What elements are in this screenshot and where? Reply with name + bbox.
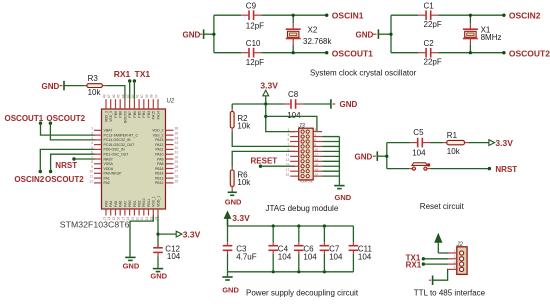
svg-text:PB10: PB10 [142, 198, 146, 207]
svg-text:32: 32 [175, 146, 179, 150]
wire TX1 to J2 pin2 [423, 258, 448, 260]
svg-text:3.3V: 3.3V [495, 138, 513, 148]
ground terminal GND (right of C8) [331, 99, 358, 109]
node reset tap [385, 155, 388, 158]
svg-text:20: 20 [314, 173, 318, 177]
svg-text:34: 34 [175, 136, 179, 140]
power terminal 3.3V (reset) [489, 138, 513, 148]
svg-text:PA15: PA15 [152, 111, 156, 119]
wire C5 to R1 [430, 142, 443, 144]
svg-text:39: 39 [145, 94, 149, 98]
svg-text:3: 3 [287, 133, 289, 137]
svg-text:GND: GND [355, 152, 373, 161]
capacitor C7 [320, 226, 343, 272]
svg-text:19: 19 [131, 217, 135, 221]
svg-text:NRST: NRST [495, 165, 517, 174]
node rail junctions [272, 224, 326, 273]
svg-text:1: 1 [91, 127, 93, 131]
svg-text:R1: R1 [447, 131, 458, 140]
svg-text:15: 15 [286, 163, 290, 167]
svg-text:VSSA: VSSA [104, 162, 114, 166]
svg-text:U2: U2 [167, 99, 175, 105]
svg-text:PB11: PB11 [147, 199, 151, 207]
svg-text:12pF: 12pF [246, 21, 264, 30]
wire bottom rail to C2 [391, 52, 418, 54]
svg-text:PB3: PB3 [147, 111, 151, 118]
svg-text:22pF: 22pF [424, 20, 442, 29]
ground terminal (TTL) [429, 276, 433, 286]
microcontroller U2 STM32F103C8T6 [89, 94, 178, 220]
svg-text:PB7: PB7 [128, 111, 132, 118]
svg-text:GND: GND [150, 271, 167, 280]
wire C2 to OSCOUT2 [439, 52, 504, 54]
svg-text:104: 104 [412, 148, 426, 157]
svg-text:36: 36 [175, 127, 179, 131]
crystal X1 [463, 15, 502, 53]
svg-text:38: 38 [150, 94, 154, 98]
svg-text:4: 4 [91, 141, 93, 145]
node junction at GND tap [212, 33, 215, 36]
svg-text:3.3V: 3.3V [260, 81, 278, 91]
svg-text:30: 30 [175, 155, 179, 159]
wire C1 to OSCIN2 [439, 14, 504, 16]
wire GND to branches [377, 143, 387, 169]
svg-text:13: 13 [102, 217, 106, 221]
svg-text:33: 33 [175, 141, 179, 145]
ground (decoupling) [222, 272, 239, 295]
node OSCIN2 [502, 10, 541, 20]
wire OSCIN2 to pin 5 [40, 149, 95, 171]
svg-text:PB9: PB9 [114, 111, 118, 118]
svg-text:2: 2 [314, 128, 316, 132]
svg-text:20: 20 [136, 217, 140, 221]
svg-text:PA6: PA6 [119, 201, 123, 207]
svg-text:3.3V: 3.3V [183, 229, 201, 239]
svg-text:C1: C1 [424, 2, 435, 11]
ground terminal GND (left of R3) [42, 81, 65, 91]
svg-text:PA9: PA9 [157, 157, 163, 161]
node OSCOUT2 [502, 48, 550, 58]
svg-text:Power supply decoupling circui: Power supply decoupling circuit [246, 288, 359, 297]
svg-text:104: 104 [167, 252, 181, 261]
svg-text:PD1-OSC_OUT: PD1-OSC_OUT [104, 153, 130, 157]
svg-text:PA8: PA8 [157, 162, 163, 166]
svg-text:PA10: PA10 [155, 153, 163, 157]
svg-text:104: 104 [358, 252, 372, 261]
svg-text:PA1: PA1 [104, 176, 110, 180]
svg-text:18: 18 [126, 217, 130, 221]
svg-text:10k: 10k [237, 122, 251, 131]
svg-text:5: 5 [91, 146, 93, 150]
capacitor C10 [241, 39, 264, 67]
capacitor C6 [294, 226, 317, 272]
svg-text:25: 25 [175, 179, 179, 183]
power terminal 3.3V (right of VDD_1) [176, 229, 200, 239]
svg-text:48: 48 [102, 94, 106, 98]
capacitor C8 [284, 90, 304, 120]
wire TX1 to PB6 pin [133, 81, 135, 99]
wire bottom rail [214, 52, 241, 54]
resistor R1 [443, 131, 468, 156]
wire VSS_1 to ground [130, 216, 153, 257]
svg-text:10k: 10k [447, 147, 461, 156]
svg-text:RX1: RX1 [406, 261, 422, 270]
node OSCIN1 [325, 10, 364, 20]
svg-text:1: 1 [454, 249, 456, 253]
svg-text:10: 10 [314, 148, 318, 152]
svg-text:14: 14 [314, 158, 318, 162]
svg-text:17: 17 [286, 168, 290, 172]
node junction at GND tap [389, 33, 392, 36]
svg-text:PA12: PA12 [155, 143, 163, 147]
svg-text:VSS_2: VSS_2 [153, 133, 164, 137]
svg-text:PB14: PB14 [155, 172, 164, 176]
svg-text:23: 23 [150, 217, 154, 221]
wire top rail [228, 225, 354, 227]
svg-text:PC13-TAMPER-RT_C: PC13-TAMPER-RT_C [104, 133, 139, 137]
svg-text:6: 6 [314, 138, 316, 142]
wire R2 to J3 pin7 [232, 132, 295, 146]
svg-text:PB1: PB1 [133, 200, 137, 207]
svg-text:PA5: PA5 [114, 201, 118, 207]
wire GND to rails vertical [378, 15, 391, 53]
wire RESET to J3 pin15 [261, 165, 296, 167]
svg-text:PB0: PB0 [128, 200, 132, 207]
ground (below C12) [150, 269, 167, 281]
svg-text:OSCIN2: OSCIN2 [509, 10, 541, 20]
ground (below chip left) [123, 257, 140, 270]
svg-text:8: 8 [314, 143, 316, 147]
svg-text:8MHz: 8MHz [481, 33, 502, 42]
svg-text:OSCOUT1: OSCOUT1 [332, 48, 373, 58]
resistor R2 [230, 104, 251, 132]
wire RX1 to PB7 pin [129, 81, 131, 99]
svg-text:GND: GND [222, 286, 239, 295]
svg-text:104: 104 [287, 111, 301, 120]
wire J2 pin4 to ground [433, 269, 448, 280]
push button (reset) [409, 163, 430, 170]
svg-text:OSCOUT2: OSCOUT2 [45, 175, 84, 184]
svg-text:R3: R3 [88, 74, 99, 83]
svg-text:8: 8 [91, 160, 93, 164]
svg-text:NRST: NRST [104, 157, 114, 161]
wire C8 to GND [304, 103, 331, 105]
svg-text:GND: GND [340, 100, 358, 109]
capacitor C11 [349, 226, 373, 272]
wire top rail to C1 [391, 14, 418, 16]
svg-text:TTL to 485 interface: TTL to 485 interface [414, 288, 486, 297]
svg-text:PB8: PB8 [119, 111, 123, 118]
svg-text:1: 1 [287, 128, 289, 132]
wire 3.3V to J3 pin1 [266, 104, 295, 132]
svg-text:VDD_1: VDD_1 [156, 196, 160, 207]
svg-text:15: 15 [112, 217, 116, 221]
svg-text:OSCIN1: OSCIN1 [332, 10, 364, 20]
svg-text:RESET: RESET [251, 156, 278, 165]
svg-text:7: 7 [287, 143, 289, 147]
svg-text:PB13: PB13 [155, 176, 164, 180]
svg-text:C5: C5 [413, 128, 424, 137]
capacitor C3 [223, 226, 257, 272]
wire C12 to ground [157, 256, 159, 268]
ground (J3 bus) [334, 186, 352, 203]
wire 3.3V to J3 pin2 [266, 116, 317, 131]
svg-text:12: 12 [89, 179, 93, 183]
wire R3 to BOOT0 pin [106, 86, 125, 100]
node OSCOUT2 (left label bottom) [45, 170, 84, 184]
svg-text:VBAT: VBAT [104, 129, 114, 133]
svg-text:42: 42 [131, 94, 135, 98]
svg-text:21: 21 [140, 217, 144, 221]
wire top rail to OSCIN1 [214, 14, 241, 16]
svg-text:46: 46 [112, 94, 116, 98]
svg-text:2: 2 [454, 255, 456, 259]
wire VDD_1 down [157, 216, 159, 248]
svg-text:PA14: PA14 [156, 111, 160, 119]
svg-text:4.7uF: 4.7uF [236, 252, 257, 261]
svg-text:37: 37 [154, 94, 158, 98]
svg-text:2: 2 [91, 132, 93, 136]
power terminal 3.3V (decoupling) [224, 212, 250, 226]
svg-text:12pF: 12pF [246, 58, 264, 67]
node VDD_1 branch [156, 233, 159, 236]
resistor R6 [230, 167, 251, 191]
svg-text:9: 9 [287, 148, 289, 152]
ground terminal GND (reset circuit) [355, 151, 378, 161]
capacitor C5 [410, 128, 430, 158]
node 3.3V junction [264, 102, 267, 105]
svg-text:104: 104 [329, 252, 343, 261]
svg-text:13: 13 [286, 158, 290, 162]
wires J3 even pins to ground bus [322, 137, 339, 185]
connector J3 2x10 header [286, 123, 323, 183]
svg-text:41: 41 [136, 94, 140, 98]
svg-text:PB5: PB5 [138, 111, 142, 118]
svg-text:10: 10 [89, 170, 93, 174]
svg-text:OSCOUT1: OSCOUT1 [5, 114, 44, 123]
svg-text:14: 14 [107, 217, 111, 221]
svg-text:3: 3 [91, 136, 93, 140]
svg-text:PB15: PB15 [155, 167, 164, 171]
node OSCOUT2 (left label top) [46, 114, 85, 125]
capacitor C4 [268, 226, 291, 272]
crystal X2 [286, 15, 333, 53]
wire power to J2 pin1 [438, 252, 448, 254]
node X2 top [292, 14, 295, 17]
wire bottom rail [228, 271, 354, 273]
node RX1 [114, 69, 132, 83]
svg-text:JTAG debug module: JTAG debug module [266, 204, 339, 213]
svg-text:PC15-OSC32_OUT: PC15-OSC32_OUT [104, 143, 136, 147]
svg-text:104: 104 [278, 252, 292, 261]
node NRST (left label) [55, 157, 77, 170]
wire R1 to 3.3V [468, 142, 489, 144]
svg-text:26: 26 [175, 175, 179, 179]
node TX1 [406, 254, 425, 263]
node TX1 [133, 69, 151, 83]
svg-text:22pF: 22pF [424, 58, 442, 67]
svg-text:19: 19 [286, 173, 290, 177]
wire GND to R3 [64, 85, 84, 87]
svg-text:4: 4 [454, 266, 456, 270]
svg-text:35: 35 [175, 132, 179, 136]
svg-text:17: 17 [121, 217, 125, 221]
wire to 3.3V arrow [158, 233, 176, 235]
node NRST [488, 165, 518, 174]
svg-text:PD0-OSC_IN: PD0-OSC_IN [104, 148, 125, 152]
svg-text:45: 45 [117, 94, 121, 98]
svg-text:44: 44 [121, 94, 125, 98]
capacitor C1 [418, 2, 442, 30]
svg-text:OSCOUT2: OSCOUT2 [46, 114, 85, 123]
svg-text:9: 9 [91, 165, 93, 169]
svg-text:4: 4 [314, 133, 316, 137]
svg-text:VSS_3: VSS_3 [109, 111, 113, 122]
svg-text:TCK/RTCK: TCK/RTCK [300, 180, 313, 184]
svg-text:C10: C10 [246, 39, 261, 48]
svg-text:BOOT0: BOOT0 [123, 111, 127, 123]
svg-text:6: 6 [91, 151, 93, 155]
svg-text:29: 29 [175, 160, 179, 164]
wire GND to rails vertical [204, 15, 214, 53]
node X2 bottom [292, 51, 295, 54]
svg-text:10k: 10k [237, 178, 251, 187]
svg-text:PA11: PA11 [155, 148, 163, 152]
svg-text:GND: GND [335, 193, 352, 202]
svg-text:10k: 10k [88, 88, 102, 97]
svg-text:5: 5 [287, 138, 289, 142]
wire button to NRST [430, 168, 489, 170]
svg-text:GND: GND [183, 31, 201, 40]
wire C9 to OSCIN1 [261, 14, 326, 16]
wire top rail R2 to C8 [232, 103, 284, 105]
node RESET [251, 156, 278, 168]
capacitor C12 [153, 244, 181, 261]
svg-text:43: 43 [126, 94, 130, 98]
capacitor C9 [241, 2, 264, 31]
svg-text:VSS_1: VSS_1 [152, 196, 156, 207]
svg-text:PA4: PA4 [109, 201, 113, 207]
svg-text:27: 27 [175, 170, 179, 174]
svg-text:System clock crystal oscillato: System clock crystal oscillator [310, 69, 417, 78]
wire OSCOUT2 to pin 6 [51, 154, 95, 171]
svg-text:104: 104 [303, 252, 317, 261]
capacitor C2 [418, 39, 442, 66]
svg-text:GND: GND [225, 198, 242, 207]
node RX1 [406, 261, 425, 270]
svg-text:PB12: PB12 [155, 181, 164, 185]
svg-text:PB6: PB6 [133, 111, 137, 118]
node branch pin2 [264, 115, 267, 118]
svg-text:PA2: PA2 [104, 181, 110, 185]
wire NRST to pin 7 [74, 158, 95, 160]
svg-text:PA13: PA13 [155, 138, 163, 142]
svg-text:11: 11 [286, 153, 290, 157]
svg-text:32.768k: 32.768k [303, 37, 332, 46]
svg-text:PB4: PB4 [142, 111, 146, 118]
svg-text:47: 47 [107, 94, 111, 98]
wire J3 pin9 to R6 [232, 151, 295, 166]
node OSCOUT1 (left label) [5, 114, 44, 125]
svg-text:OSCIN2: OSCIN2 [14, 175, 44, 184]
svg-text:VDDA: VDDA [104, 167, 114, 171]
power terminal 3.3V (JTAG top) [260, 81, 278, 104]
node X1 top [469, 14, 472, 17]
svg-text:VDD_3: VDD_3 [104, 111, 108, 122]
svg-text:22: 22 [145, 217, 149, 221]
wire OSCOUT1 to pin 2 [41, 123, 96, 135]
svg-text:OSCOUT2: OSCOUT2 [509, 48, 550, 58]
wire OSCOUT2 to pin 3 [50, 123, 95, 140]
svg-text:12: 12 [314, 153, 318, 157]
svg-text:Reset circuit: Reset circuit [420, 202, 465, 211]
svg-text:PB2: PB2 [138, 200, 142, 207]
svg-text:PC14-OSC32_IN: PC14-OSC32_IN [104, 138, 131, 142]
svg-text:16: 16 [314, 163, 318, 167]
svg-text:C9: C9 [246, 2, 257, 11]
resistor R3 [84, 74, 107, 97]
ground (below R6) [225, 191, 242, 207]
node OSCIN2 (left label bottom) [14, 170, 44, 184]
wire to button [387, 168, 409, 170]
svg-text:GND: GND [42, 82, 60, 91]
svg-text:PA0-WKUP: PA0-WKUP [104, 172, 123, 176]
wire to C5 [387, 142, 410, 144]
connector J2 4-pin header [448, 242, 467, 275]
wire C10 to OSCOUT1 [261, 52, 326, 54]
svg-text:TX1: TX1 [135, 69, 151, 79]
svg-text:C8: C8 [288, 90, 299, 99]
power terminal arrow (TTL) [435, 234, 442, 253]
svg-text:3.3V: 3.3V [232, 213, 250, 223]
svg-text:RX1: RX1 [114, 69, 131, 79]
svg-text:7: 7 [91, 155, 93, 159]
svg-text:GND: GND [356, 31, 374, 40]
svg-text:C2: C2 [424, 39, 435, 48]
svg-text:28: 28 [175, 165, 179, 169]
svg-text:X2: X2 [308, 25, 318, 34]
node X1 bottom [469, 51, 472, 54]
svg-text:VDD_2: VDD_2 [152, 129, 163, 133]
ground terminal GND (left of C1/C2) [356, 29, 379, 39]
svg-text:NRST: NRST [55, 161, 77, 170]
svg-text:31: 31 [175, 151, 179, 155]
svg-text:PA3: PA3 [104, 201, 108, 207]
wire RX1 to J2 pin3 [423, 263, 448, 265]
ground terminal GND (left of C9/C10) [183, 29, 204, 39]
svg-text:3: 3 [454, 260, 456, 264]
svg-text:40: 40 [140, 94, 144, 98]
node OSCOUT1 [325, 48, 373, 58]
svg-text:24: 24 [154, 217, 158, 221]
svg-text:16: 16 [117, 217, 121, 221]
svg-text:GND: GND [123, 262, 140, 271]
svg-text:11: 11 [89, 175, 93, 179]
svg-text:PA7: PA7 [123, 201, 127, 207]
svg-text:18: 18 [314, 168, 318, 172]
